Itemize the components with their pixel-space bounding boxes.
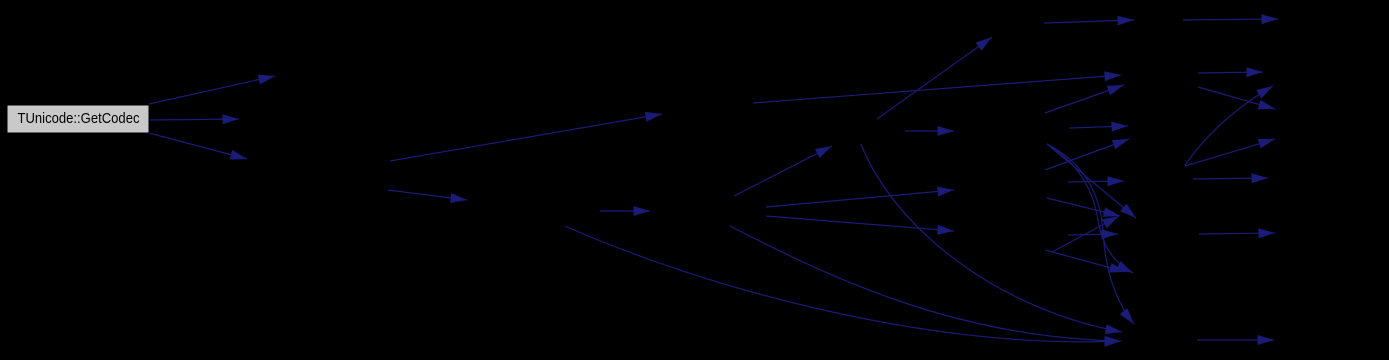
wire edge35: hub to node8h <box>1197 335 1274 345</box>
wire edge32: node7 to node8f <box>1193 173 1268 183</box>
svg-text:TUnicode::GetCodec: TUnicode::GetCodec <box>18 110 140 127</box>
wire edge6: node3a to node4b <box>600 206 650 216</box>
wire edge8: node4a to node7b (long) <box>753 71 1121 103</box>
wire edge10: node4b to node6b <box>766 187 954 208</box>
wire edge29: node7 to node8e <box>1185 139 1275 166</box>
wire edge17: node6 to node7c <box>1045 85 1124 113</box>
wire edge30: node7b to node8b <box>1198 67 1263 77</box>
wire edge7: node3a to hub (long curve) <box>565 226 1121 347</box>
wire edge21: node6 to node7g <box>1047 144 1136 218</box>
wire edge9: node4b to node5a <box>734 146 832 196</box>
wire edge16: node6a to node7a <box>1044 16 1134 26</box>
wire edge14: node5a to node6a <box>877 37 992 119</box>
node TUnicode::GetCodec (highlighted box) <box>7 105 149 133</box>
wire edge19: node6 to node7d <box>1069 122 1128 132</box>
wire edge26: node6 to node7g2 (second) <box>1047 198 1120 217</box>
wire edge24: node6 to node7h <box>1045 250 1126 273</box>
wire edge27: node6 to node7g3 <box>1068 229 1118 239</box>
wire edge3: GetCodec to node2c <box>149 133 247 160</box>
wire edge34: node7a to node8a <box>1183 14 1278 24</box>
wire edge22: node6 curve to node7h <box>1047 144 1133 273</box>
wire edge23: node6 curve to node7i <box>1047 144 1134 324</box>
wire edge31: node7 to node8d <box>1198 87 1275 109</box>
wire edge1: GetCodec to node2a <box>149 75 275 104</box>
wire edge11: node4b to node6c <box>766 216 954 235</box>
wire edge18: node6 to node7e <box>1045 139 1129 170</box>
wire edge20: node6 to node7f <box>1068 176 1124 186</box>
wire edge33: node7 to node8g <box>1199 228 1275 238</box>
wire edge4: node2c to node4a <box>390 112 662 161</box>
wire edge12: node4b to hub (curve) <box>730 226 1121 346</box>
wire edge25: node6 to node7g2 <box>1052 216 1119 252</box>
wire edge13: node5a to hub (steep curve) <box>861 144 1122 334</box>
wire edge5: node2c to node3a <box>388 190 467 203</box>
wire edge15: node5b to node6b <box>905 126 954 136</box>
wire edge28: node7 curve to node8c <box>1185 86 1273 165</box>
wire edge2: GetCodec to node2b <box>150 114 239 124</box>
